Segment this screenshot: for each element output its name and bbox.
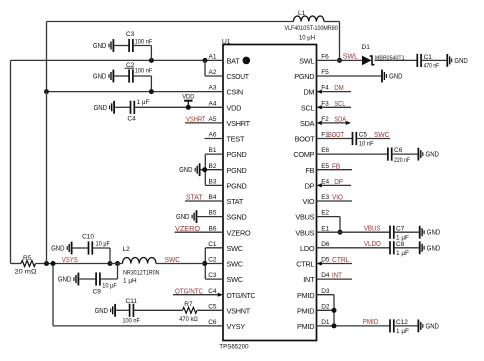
wire C9 row ground to cap — [79, 278, 96, 280]
resistor R7 — [183, 307, 198, 313]
svg-text:VSHNT: VSHNT — [227, 306, 251, 315]
wire L1 right lead to SWL node — [324, 21, 340, 23]
svg-text:CSOUT: CSOUT — [227, 72, 250, 81]
svg-text:SDA: SDA — [334, 115, 346, 124]
wire C3pin stub — [205, 278, 223, 280]
svg-text:10 nF: 10 nF — [359, 141, 374, 148]
svg-text:C6: C6 — [208, 319, 217, 326]
svg-text:INT: INT — [332, 271, 342, 280]
svg-text:GND: GND — [51, 245, 64, 253]
wire B1 stub — [205, 153, 223, 155]
svg-text:F5: F5 — [321, 69, 329, 76]
capacitor C4 — [130, 101, 132, 114]
svg-text:C12: C12 — [396, 319, 408, 326]
wire E2 to E1 bracket — [317, 216, 341, 218]
svg-text:B3: B3 — [209, 179, 217, 186]
svg-text:D6: D6 — [321, 241, 330, 248]
svg-text:GND: GND — [427, 229, 440, 237]
ground symbol at C2 — [112, 70, 114, 83]
inductor L1 — [294, 16, 325, 22]
svg-text:SWC: SWC — [227, 275, 243, 284]
svg-text:C9: C9 — [93, 289, 102, 296]
svg-text:TEST: TEST — [227, 135, 245, 144]
wire PMID D2 stub — [317, 309, 335, 311]
wire C11 row ground to cap — [116, 309, 130, 311]
svg-text:C4: C4 — [208, 288, 217, 295]
svg-text:C8: C8 — [396, 241, 405, 248]
svg-text:GND: GND — [94, 104, 107, 112]
svg-text:VBUS: VBUS — [295, 213, 314, 222]
svg-text:F2: F2 — [321, 116, 329, 123]
svg-text:VYSY: VYSY — [227, 322, 246, 331]
wire C9 right lead up to VSYS — [100, 278, 118, 280]
wire B1-B3 bracket vertical — [204, 154, 206, 185]
svg-text:PGND: PGND — [227, 182, 247, 191]
svg-text:DP: DP — [305, 182, 315, 191]
node junction dot SWC C2 — [202, 261, 207, 266]
svg-text:SWC: SWC — [165, 255, 181, 264]
ground symbol at C6 — [417, 148, 419, 161]
capacitor C3 — [128, 39, 130, 52]
svg-text:SCL: SCL — [334, 99, 345, 108]
svg-text:PGND: PGND — [294, 72, 314, 81]
svg-text:LDO: LDO — [300, 244, 315, 253]
svg-text:SDA: SDA — [300, 119, 315, 128]
capacitor C12 — [389, 319, 391, 332]
wire DM F4 with arrow into pin — [322, 91, 352, 93]
svg-text:E6: E6 — [321, 147, 329, 154]
svg-text:VLF4010ST-100MR80: VLF4010ST-100MR80 — [285, 25, 339, 32]
ground symbol at C11 — [114, 304, 116, 317]
ground symbol at C7 — [419, 226, 421, 239]
svg-text:D4: D4 — [321, 272, 330, 279]
wire VYSY row C6 from left vertical — [53, 325, 223, 327]
svg-text:U1: U1 — [222, 38, 231, 45]
wire R7 to VSHNT pin C5 — [197, 309, 223, 311]
svg-text:C3: C3 — [208, 272, 217, 279]
wire R5 row left segment — [11, 263, 22, 265]
ground symbol at PGND B2 — [199, 163, 201, 176]
svg-text:E1: E1 — [321, 225, 329, 232]
svg-text:A6: A6 — [209, 132, 217, 139]
wire L2 to SWC pins — [156, 263, 205, 265]
wire C6 to ground — [392, 153, 418, 155]
svg-text:B2: B2 — [209, 163, 217, 170]
svg-text:D1: D1 — [362, 44, 371, 51]
power symbol VDD tap — [187, 101, 189, 108]
svg-text:100 nF: 100 nF — [135, 67, 153, 74]
wire PMID D3 bracket — [317, 294, 335, 296]
svg-text:F3: F3 — [321, 100, 329, 107]
diode D1 MBR0540T1 anode triangle — [362, 56, 372, 66]
svg-text:INT: INT — [303, 275, 315, 284]
svg-text:GND: GND — [58, 276, 71, 284]
wire CSIN row A3 horizontal — [47, 91, 224, 93]
node junction dot V3 at VSYS — [51, 261, 56, 266]
svg-text:F4: F4 — [321, 85, 329, 92]
svg-text:D1: D1 — [321, 319, 330, 326]
svg-text:SWC: SWC — [227, 244, 243, 253]
wire C1 to ground — [421, 59, 446, 61]
ground symbol at C4 — [113, 101, 115, 114]
svg-text:PMID: PMID — [297, 291, 314, 300]
wire A1-A2 bracket vertical — [204, 60, 206, 76]
svg-text:10 µF: 10 µF — [96, 240, 111, 247]
svg-text:SWC: SWC — [227, 260, 243, 269]
diode D1 schottky cathode bar — [370, 56, 375, 65]
wire COMP E6 to C6 — [317, 153, 388, 155]
svg-text:DP: DP — [334, 177, 343, 186]
svg-text:CSIN: CSIN — [227, 88, 243, 97]
wire SCL F3 with arrow into pin — [322, 106, 352, 108]
svg-text:VSHRT: VSHRT — [186, 115, 206, 124]
svg-text:BOOT: BOOT — [295, 135, 315, 144]
wire LDO D6 row — [317, 247, 391, 249]
wire TEST stub A6 — [205, 138, 224, 140]
svg-text:E4: E4 — [321, 179, 329, 186]
svg-text:D5: D5 — [321, 257, 330, 264]
svg-text:VSYS: VSYS — [62, 255, 78, 264]
wire R5 to junction dots — [36, 263, 111, 265]
wire PMID D1 row — [317, 325, 391, 327]
wire C8 to ground — [394, 247, 419, 249]
svg-text:C5: C5 — [359, 132, 368, 139]
svg-text:100 nF: 100 nF — [135, 38, 153, 45]
svg-text:F6: F6 — [321, 54, 329, 61]
wire INT D4 — [317, 278, 353, 280]
svg-text:COMP: COMP — [293, 150, 314, 159]
svg-text:1 µF: 1 µF — [396, 328, 409, 335]
wire C11 to R7 — [133, 309, 182, 311]
ground symbol at C10 — [71, 242, 73, 255]
svg-text:1 µF: 1 µF — [396, 250, 409, 257]
svg-text:470 nF: 470 nF — [424, 62, 440, 69]
svg-text:GND: GND — [176, 213, 189, 221]
svg-text:GND: GND — [95, 307, 108, 315]
node junction dot VDD on A4 — [186, 105, 191, 110]
svg-text:C5: C5 — [208, 303, 217, 310]
node junction dot C2 to A3 — [149, 89, 154, 94]
svg-text:NR3012T1R0N: NR3012T1R0N — [123, 269, 160, 276]
svg-text:L1: L1 — [298, 10, 306, 17]
node junction dot C10 at VSYS — [108, 261, 113, 266]
svg-text:R5: R5 — [23, 255, 32, 262]
svg-text:OTG/NTC: OTG/NTC — [175, 286, 204, 295]
svg-text:SWL: SWL — [299, 57, 314, 66]
svg-text:PGND: PGND — [227, 166, 247, 175]
ground symbol at C9 — [77, 273, 79, 286]
svg-text:C3: C3 — [126, 31, 135, 38]
wire top horizontal from left vertical to L1 — [47, 21, 294, 23]
svg-text:20 mΩ: 20 mΩ — [15, 268, 37, 275]
svg-text:VDD: VDD — [227, 103, 242, 112]
svg-text:BAT: BAT — [227, 57, 241, 66]
wire VSYS row between dots — [110, 263, 123, 265]
svg-text:D3: D3 — [321, 288, 330, 295]
node junction dot PMID D1 — [332, 323, 337, 328]
wire C2pin stub — [205, 263, 223, 265]
svg-text:GND: GND — [93, 73, 106, 81]
svg-text:100 nF: 100 nF — [122, 317, 140, 324]
svg-text:FB: FB — [305, 166, 314, 175]
node junction dot top-left vertical at VSYS — [44, 261, 49, 266]
ground symbol at C8 — [419, 241, 421, 254]
svg-text:R7: R7 — [184, 301, 193, 308]
node junction dot PMID D2 — [332, 308, 337, 313]
wire BOOT F1 to C5 — [317, 138, 353, 140]
svg-text:GND: GND — [389, 73, 402, 81]
svg-text:VDD: VDD — [182, 93, 195, 100]
svg-text:DM: DM — [334, 83, 344, 92]
svg-text:B1: B1 — [209, 147, 217, 154]
svg-text:C1: C1 — [208, 241, 217, 248]
capacitor C7 — [389, 226, 391, 239]
svg-text:A5: A5 — [209, 116, 217, 123]
svg-text:VLDO: VLDO — [364, 239, 381, 248]
wire CTRL D5 with arrow into pin — [322, 263, 353, 265]
wire SWL row F6 to diode — [317, 59, 363, 61]
wire PGND F5 to ground — [317, 75, 382, 77]
svg-text:VIO: VIO — [332, 193, 343, 202]
svg-text:PMID: PMID — [297, 322, 314, 331]
capacitor C8 — [389, 241, 391, 254]
wire C1-C3 bracket vertical — [204, 248, 206, 279]
svg-text:SWL: SWL — [343, 52, 358, 61]
svg-text:SGND: SGND — [227, 213, 247, 222]
IC U1 pin-1 indicator dot — [243, 57, 251, 65]
node junction dot on A1 at A2 bracket — [203, 58, 208, 63]
svg-text:SWC: SWC — [374, 130, 390, 139]
svg-text:10 µH: 10 µH — [299, 35, 315, 42]
wire VZERO stub B6 — [175, 231, 224, 233]
svg-text:CTRL: CTRL — [332, 255, 350, 264]
ground symbol right of C1 — [446, 54, 448, 67]
svg-text:GND: GND — [93, 42, 106, 50]
svg-text:VZERO: VZERO — [175, 224, 200, 233]
svg-text:A4: A4 — [209, 100, 217, 107]
svg-text:FB: FB — [332, 161, 340, 170]
svg-text:VBUS: VBUS — [364, 224, 381, 233]
capacitor C10 — [88, 241, 90, 254]
svg-text:E2: E2 — [321, 210, 329, 217]
capacitor C3 row wire from ground to cap — [114, 45, 129, 47]
wire C2 to A3 row — [133, 75, 152, 77]
capacitor C5 — [352, 132, 354, 145]
IC U1 TPS65200 body — [223, 45, 317, 341]
wire left vertical V3 down to VYSY row — [52, 264, 54, 326]
svg-text:L2: L2 — [123, 246, 131, 253]
node junction dot on A1 at C3 drop — [149, 58, 154, 63]
capacitor C9 — [95, 272, 97, 285]
ground symbol at SGND B5 — [196, 210, 198, 223]
svg-text:DM: DM — [303, 88, 314, 97]
wire left vertical V2 from top corner to VSYS row — [46, 22, 48, 264]
capacitor C2 row wire from ground to cap — [114, 75, 129, 77]
capacitor C2 — [128, 69, 130, 82]
svg-text:PMID: PMID — [297, 306, 314, 315]
wire STAT stub B4 — [185, 200, 223, 202]
node junction dot PGND B2 — [202, 167, 207, 172]
wire BAT row A1 horizontal — [11, 59, 224, 61]
svg-text:VSHRT: VSHRT — [227, 119, 251, 128]
wire VIO E3 — [317, 200, 353, 202]
svg-text:C6: C6 — [394, 147, 403, 154]
svg-text:1 µH: 1 µH — [123, 277, 137, 284]
wire B3 stub — [205, 184, 223, 186]
svg-text:C11: C11 — [126, 298, 138, 305]
inductor L2 — [123, 258, 157, 264]
node junction dot SWL — [337, 58, 342, 63]
ground symbol at PGND F5 — [381, 70, 383, 83]
wire DP E4 with arrow into pin — [322, 184, 352, 186]
wire VSHRT stub A5 — [185, 122, 223, 124]
svg-text:VIO: VIO — [302, 197, 314, 206]
svg-text:VBUS: VBUS — [295, 228, 314, 237]
ground symbol at C12 — [417, 320, 419, 333]
wire VDD row A4 to IC — [134, 106, 223, 108]
wire C10 row ground to cap — [73, 247, 89, 249]
resistor R5 — [21, 261, 35, 267]
wire A2 stub — [205, 75, 223, 77]
svg-text:A3: A3 — [209, 85, 217, 92]
wire C4 row from ground to cap — [115, 106, 131, 108]
svg-text:C2: C2 — [208, 257, 217, 264]
svg-text:1 µF: 1 µF — [137, 99, 150, 106]
node junction dot VBUS E1 — [338, 230, 343, 235]
wire diode to C1 — [375, 59, 418, 61]
wire C12 to ground — [394, 325, 418, 327]
svg-text:E3: E3 — [321, 194, 329, 201]
wire FB E5 — [317, 169, 353, 171]
svg-text:GND: GND — [179, 166, 192, 174]
svg-text:A1: A1 — [209, 54, 217, 61]
wire B2 stub — [205, 169, 223, 171]
wire left vertical V1 from BAT row to R5 row — [10, 60, 12, 263]
node junction dot on left vertical at A3 — [44, 89, 49, 94]
svg-text:C4: C4 — [127, 115, 136, 122]
capacitor C1 — [416, 54, 418, 67]
node junction dot C9 at VSYS — [115, 261, 120, 266]
svg-text:C10: C10 — [82, 233, 94, 240]
wire OTG/NTC stub C4 with arrow into pin — [173, 294, 218, 296]
wire C3 to A1 row — [133, 45, 152, 47]
svg-text:GND: GND — [426, 151, 439, 159]
ground symbol at C3 — [112, 39, 114, 52]
svg-text:B4: B4 — [209, 194, 217, 201]
svg-text:220 nF: 220 nF — [394, 157, 410, 164]
svg-text:GND: GND — [454, 57, 467, 65]
svg-text:470 kΩ: 470 kΩ — [179, 316, 198, 323]
capacitor C6 — [387, 148, 389, 161]
wire SGND stub B5 — [197, 216, 223, 218]
svg-text:PMID: PMID — [363, 317, 379, 326]
svg-text:TPS65200: TPS65200 — [219, 343, 249, 350]
svg-text:C7: C7 — [396, 225, 405, 232]
svg-text:10 µF: 10 µF — [102, 282, 117, 289]
svg-text:STAT: STAT — [186, 193, 203, 202]
svg-text:B5: B5 — [209, 210, 217, 217]
svg-text:PGND: PGND — [227, 150, 247, 159]
wire C7 to ground — [394, 231, 419, 233]
svg-text:A2: A2 — [209, 69, 217, 76]
wire C1pin stub — [205, 247, 223, 249]
svg-text:CTRL: CTRL — [296, 260, 314, 269]
svg-text:E5: E5 — [321, 163, 329, 170]
svg-text:BOOT: BOOT — [328, 130, 344, 139]
wire C10 right lead down to VSYS — [92, 247, 110, 249]
svg-text:VZERO: VZERO — [227, 228, 251, 237]
capacitor C11 — [129, 304, 131, 317]
svg-text:STAT: STAT — [227, 197, 244, 206]
svg-text:B6: B6 — [209, 225, 217, 232]
svg-text:SCL: SCL — [301, 103, 315, 112]
svg-text:GND: GND — [426, 322, 439, 330]
svg-text:OTG/NTC: OTG/NTC — [227, 291, 256, 300]
wire VBUS E1 row — [317, 231, 391, 233]
svg-text:D2: D2 — [321, 303, 330, 310]
svg-text:GND: GND — [427, 244, 440, 252]
wire C5 to SWC net end — [356, 138, 390, 140]
wire SDA F2 bidirectional arrows — [322, 122, 347, 124]
